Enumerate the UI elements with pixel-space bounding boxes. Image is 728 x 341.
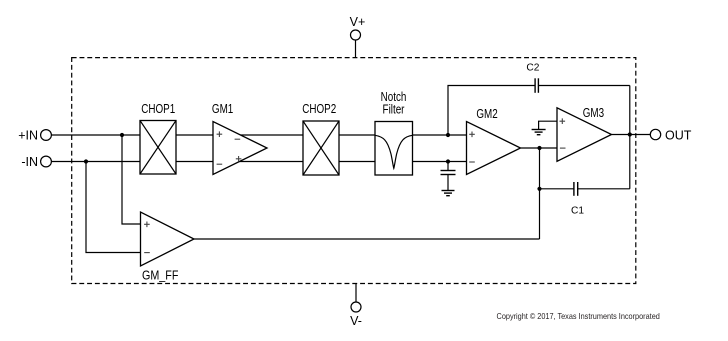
wire: C2 top wire [448,86,535,136]
node: -IN / feedforward junction [84,159,88,163]
svg-text:GM1: GM1 [212,103,233,116]
svg-text:CHOP1: CHOP1 [141,103,175,116]
svg-text:-IN: -IN [21,155,38,169]
node: +IN / feedforward junction [120,133,124,137]
capacitor C2 [526,62,539,92]
svg-text:CHOP2: CHOP2 [302,103,336,116]
op-amp GM2 [467,108,521,174]
+IN terminal [18,129,51,143]
svg-text:Filter: Filter [383,104,405,117]
ground at GM3 + input [532,121,557,135]
svg-text:C2: C2 [526,62,539,73]
chopper CHOP1 [140,103,176,174]
node: C2 tap on + rail [446,133,450,137]
dashed boundary box [72,58,636,284]
wire: bottom rail -IN to GM2 - input [52,161,467,163]
chopper CHOP2 [302,103,339,175]
svg-text:Copyright © 2017, Texas Instru: Copyright © 2017, Texas Instruments Inco… [497,312,660,321]
svg-text:V-: V- [350,314,362,328]
OUT terminal [650,128,691,142]
svg-text:+IN: +IN [18,129,38,143]
-IN terminal [21,155,51,169]
wire: right feedback vertical C2 to C1 [629,86,631,189]
svg-text:C1: C1 [571,206,584,217]
node: GM2 output junction [537,146,541,150]
wire: GM_FF output horizontal [194,238,540,240]
wire: top rail +IN to GM2 + input [52,134,467,136]
capacitor to ground on - rail [441,159,456,190]
svg-text:GM2: GM2 [476,108,497,121]
svg-text:V+: V+ [350,15,366,29]
svg-text:GM3: GM3 [583,107,604,120]
V- terminal [350,284,362,329]
svg-text:GM_FF: GM_FF [142,269,178,283]
notch filter block [375,91,413,175]
wire: feedback vertical from GM_FF output [539,148,541,239]
wire: GM3 output to OUT [612,134,651,136]
capacitor C1 [571,182,584,217]
svg-text:Notch: Notch [381,91,407,104]
wire: C1 right segment [578,188,630,190]
node: GM3 output / feedback junction [628,132,632,136]
op-amp GM1 [212,103,267,174]
ground below GM2 input capacitor [442,191,455,196]
op-amp GM_FF [141,212,195,283]
svg-text:OUT: OUT [665,128,692,142]
op-amp GM3 [557,107,612,161]
wire: GM2 output to GM3 - input [521,147,558,149]
wire: +IN feedforward to GM_FF + input [122,135,141,224]
wire: -IN feedforward to GM_FF - input [86,162,141,253]
node: C1 tap [537,187,541,191]
V+ terminal [350,15,366,58]
wire: C1 left segment [540,188,574,190]
